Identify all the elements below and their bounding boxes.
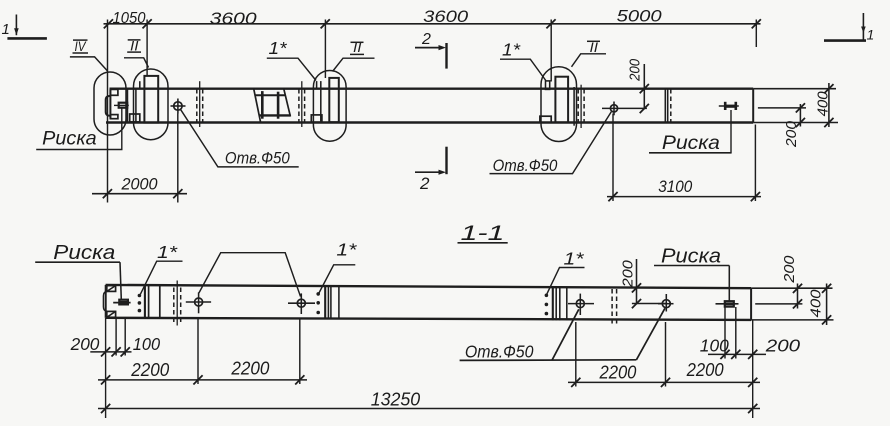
detail bubble IV (stadium around left end fitting) — [94, 72, 126, 135]
svg-text:13250: 13250 — [371, 388, 421, 409]
left end fitting: C-hook — [106, 96, 111, 116]
extension line at x=551.2 — [550, 20, 552, 82]
hole 2 (section) crosshair — [288, 302, 315, 304]
scribe mark (section right): box — [725, 301, 734, 306]
joint B (plan): axis line — [301, 81, 303, 127]
label Riska underline (plan left) — [36, 149, 122, 151]
joint A (plan): dashed line right — [202, 89, 204, 122]
svg-text:3100: 3100 — [658, 177, 692, 196]
scribe mark (plan right): right bar — [734, 102, 737, 110]
label II (first) leader — [124, 58, 149, 68]
dim 200/100 (section left): line — [90, 351, 131, 353]
dim 2000 (plan): extension under hole 1 — [177, 114, 179, 203]
joint C (plan): dashed line right — [583, 89, 585, 122]
tick at 0 — [104, 19, 113, 28]
label II (third) leader — [572, 54, 607, 67]
rib 1 (section): weld dots — [138, 294, 142, 298]
beam (plan): right end — [752, 89, 754, 123]
svg-text:200: 200 — [627, 58, 644, 81]
svg-text:200: 200 — [619, 260, 636, 289]
svg-text:1*: 1* — [157, 242, 178, 262]
section marker 2 (top): arrow line — [415, 47, 441, 49]
svg-text:2200: 2200 — [230, 359, 269, 379]
joint A (section): axis line — [176, 281, 178, 326]
beam (section): right end — [750, 288, 752, 320]
svg-text:1050: 1050 — [113, 10, 146, 27]
brace plate (plan): bottom bar — [259, 114, 291, 116]
svg-text:Отв.Ф50: Отв.Ф50 — [225, 149, 290, 168]
extension of beam top edge (plan right) — [753, 88, 836, 90]
svg-text:1: 1 — [2, 21, 10, 38]
section marker 2 (bottom): cut line — [445, 147, 447, 175]
rib 2 (section): plate lines — [324, 285, 326, 318]
dim 200 (section right): line — [797, 284, 799, 309]
svg-text:2: 2 — [419, 174, 430, 193]
svg-text:Риска: Риска — [661, 246, 721, 268]
joint C (plan): dashed line left — [577, 89, 579, 122]
svg-text:1-1: 1-1 — [461, 222, 505, 245]
joint D (plan): line 1 — [664, 89, 666, 122]
svg-text:200: 200 — [783, 120, 800, 148]
rib 3 (section): weld dots — [545, 294, 549, 298]
joint B (plan): dashed line right — [304, 89, 306, 122]
rib 2: end plate line — [320, 81, 322, 122]
dim 3100 (plan): extension under beam end — [754, 125, 756, 202]
extension line at x=147.1 — [146, 20, 148, 77]
dimension line (top chain) — [104, 23, 761, 25]
rib 3: small tab plate — [546, 81, 550, 90]
long extension under beam right end (section) — [752, 320, 754, 418]
scribe mark pointer (section right) — [728, 266, 730, 302]
extension line at x=107.5 (left end, runs to 2000 dim) — [107, 20, 109, 203]
svg-text:2000: 2000 — [121, 176, 159, 194]
tick at 4650 — [321, 19, 330, 28]
scribe mark pointer (section left) — [120, 262, 121, 300]
svg-text:2200: 2200 — [599, 363, 637, 383]
svg-text:Риска: Риска — [53, 242, 115, 264]
scribe mark (section left): box — [119, 300, 128, 305]
rib 1: small tab above flange — [139, 81, 141, 89]
rib 1: end plate line — [135, 89, 137, 122]
svg-text:Риска: Риска — [42, 128, 97, 150]
label Otv f50 underline (section) — [460, 359, 637, 362]
dim 3100 (plan): extension under hole 2 — [612, 114, 614, 202]
joint D (plan): line 2 — [667, 89, 669, 122]
hole 1 (plan) circle — [174, 102, 182, 110]
section marker 1 (left): cut line — [7, 37, 47, 40]
svg-text:1: 1 — [867, 27, 875, 43]
left end fitting: scribe mark box — [119, 103, 128, 108]
svg-text:200: 200 — [765, 336, 801, 356]
rib 1 (in bubble II): vertical plate — [144, 76, 158, 123]
svg-text:3600: 3600 — [423, 8, 469, 26]
dim 200 (plan, hole offset): line — [643, 64, 645, 109]
svg-text:100: 100 — [700, 336, 729, 356]
leader to hole 3 (section) — [552, 309, 579, 360]
joint A (plan): axis line — [199, 81, 201, 127]
dim 2200 pair (section left): line — [98, 379, 307, 381]
hole 1 (section) crosshair — [186, 301, 211, 303]
hole 2 crosshair vertical — [613, 102, 615, 116]
joint B (section): dashed line left — [611, 289, 613, 325]
svg-text:3600: 3600 — [210, 10, 258, 28]
beam (plan): top edge — [110, 87, 754, 89]
left end fitting (section): top tab with weld diagonal — [107, 286, 116, 292]
hole 2 leader to label — [490, 112, 612, 174]
svg-text:Отв.Ф50: Отв.Ф50 — [465, 342, 534, 362]
scribe mark (section right): line — [716, 303, 739, 305]
extension of beam top edge (section right) — [751, 287, 832, 289]
dim 200 (section mid): extension to hole 4 — [632, 303, 666, 305]
rib 2: bottom-left lug — [311, 115, 322, 122]
label Riska underline (section left) — [35, 261, 120, 263]
brace plate (plan): left post — [261, 91, 264, 119]
label II (second) leader — [333, 58, 375, 71]
scribe mark pointer (plan right) — [730, 110, 732, 153]
left end fitting: end plate edge — [126, 89, 128, 122]
section marker 2 (bottom): arrow line — [415, 171, 441, 173]
rib 2 (section): weld dots — [316, 292, 320, 296]
left end fitting: top tab plate — [110, 89, 118, 95]
hole 1 leader to label — [181, 110, 299, 167]
extension line at x=756.3 — [755, 20, 757, 48]
tick at 1050 — [143, 19, 152, 28]
svg-text:1*: 1* — [502, 40, 521, 60]
brace plate (plan): right slant edge — [284, 89, 291, 116]
label Riska underline (section right) — [654, 265, 729, 267]
joint A (plan): dashed line left — [196, 89, 198, 122]
dim 2000 (plan): line — [92, 193, 187, 195]
dim 100/200 (section right): extension lines — [724, 307, 726, 359]
scribe mark (section left): line — [113, 302, 130, 304]
svg-text:2: 2 — [421, 31, 431, 48]
hole 4 (section) crosshair — [658, 303, 674, 305]
label 1* (section, second) leader — [319, 265, 356, 294]
svg-text:1*: 1* — [269, 38, 288, 58]
beam (section): bottom edge — [106, 318, 752, 320]
rib 2: small tab — [316, 81, 318, 88]
section marker 1 (right): cut line — [824, 39, 866, 42]
rib 3: vertical plate — [555, 77, 568, 123]
dim 400 (section): line — [826, 284, 828, 326]
hole 1 (section) circle — [195, 298, 203, 306]
section marker 1 (right): cut arrow — [862, 13, 864, 41]
hole 2 (section) circle — [297, 299, 305, 307]
joint D (plan): dashed line — [670, 89, 672, 122]
extension line at x=325.4 — [324, 20, 326, 79]
joint B (plan): dashed line left — [298, 89, 300, 122]
label 1* (section, third) leader — [547, 268, 585, 295]
scribe mark pointer (plan left) — [121, 108, 123, 150]
dim 200 (plan right): line — [799, 104, 801, 127]
rib 1: bottom-left lug — [130, 114, 140, 122]
left end fitting: scribe mark line — [114, 104, 129, 106]
joint C (plan): axis line — [580, 85, 582, 128]
rib 2: vertical plate — [329, 78, 339, 122]
leader to hole 4 (section) — [636, 308, 665, 360]
svg-text:5000: 5000 — [617, 8, 663, 26]
long extension under beam left end (section) — [105, 318, 107, 418]
brace plate (plan): left slant edge — [254, 89, 261, 122]
svg-text:200: 200 — [70, 334, 100, 354]
hole 1 crosshair — [171, 105, 186, 107]
tent leader over holes 1-2 (section) — [199, 253, 301, 297]
joint A (section): dashed line right — [180, 288, 182, 324]
tick at 8250 — [546, 19, 555, 28]
scribe mark (plan right): line — [719, 105, 739, 107]
hole 2 (plan) circle — [610, 105, 617, 112]
rib 3 (section): plate lines — [552, 288, 554, 321]
scribe mark (plan right): left bar — [724, 102, 727, 110]
svg-text:2200: 2200 — [686, 360, 724, 380]
dim 3100 (plan): line — [607, 196, 761, 198]
section marker 1 (left): cut arrow — [15, 15, 17, 36]
dim 13250: line — [98, 408, 760, 410]
svg-text:Риска: Риска — [662, 132, 720, 154]
detail bubble (stadium around rib 3) — [541, 67, 577, 142]
svg-text:100: 100 — [133, 334, 161, 354]
svg-text:II: II — [353, 39, 362, 55]
dim 200/100 (section left): extension lines — [115, 318, 117, 355]
label 1* (section, first) leader — [140, 261, 182, 294]
dim 2200 pair (section right): extensions — [575, 322, 577, 387]
beam (plan): bottom edge — [106, 121, 753, 123]
detail bubble (stadium around rib 2) — [313, 71, 346, 142]
hole 3 (section) circle — [576, 300, 584, 308]
dim 2200 pair (section right): line — [568, 381, 760, 383]
rib 1 (section): plate lines — [144, 285, 146, 318]
section title underline — [458, 242, 508, 244]
hole 3 (section) crosshair — [568, 303, 594, 305]
left end fitting (section): hook bulge — [103, 291, 107, 311]
svg-text:Отв.Ф50: Отв.Ф50 — [493, 156, 558, 175]
scribe mark (plan right): middle band — [725, 105, 736, 108]
joint C (plan): weld edge line — [573, 87, 575, 126]
beam (section): left end — [105, 285, 107, 318]
brace plate (plan): top bar — [255, 94, 285, 96]
extension at hole level (plan right) — [758, 107, 806, 109]
left end fitting: channel web — [109, 89, 111, 118]
label Riska underline (plan right) — [649, 152, 732, 154]
label 1* (first) leader — [267, 58, 316, 80]
dim 2200 pair (section left): extensions — [197, 319, 199, 385]
left end fitting (section): bottom tab with weld diagonal — [107, 311, 116, 317]
hole 4 (section) circle — [662, 300, 670, 308]
svg-text:1*: 1* — [336, 240, 357, 260]
tick at 13250 — [752, 19, 761, 28]
hole 2 crosshair horizontal / extension to 200 dim — [602, 107, 647, 109]
svg-text:2200: 2200 — [130, 360, 169, 380]
extension of beam bottom edge (section right) — [751, 319, 833, 321]
extension of beam bottom edge (plan right) — [753, 122, 838, 124]
svg-text:400: 400 — [807, 289, 824, 318]
label IV leader — [70, 57, 107, 71]
svg-text:1*: 1* — [564, 249, 585, 269]
dim 200 (section mid): line — [636, 259, 638, 304]
section marker 2 (top): cut line — [445, 43, 447, 69]
label 1* (second) leader — [500, 59, 546, 80]
joint A (section): dashed line left — [173, 288, 175, 324]
rib 3: bottom-left lug — [540, 116, 551, 122]
left end fitting: bottom tab plate — [110, 115, 118, 119]
svg-text:200: 200 — [781, 255, 798, 284]
svg-text:400: 400 — [814, 91, 831, 117]
dim 200 (section right): extension at hole level — [755, 303, 802, 305]
detail bubble II first (stadium around rib 1) — [134, 69, 169, 140]
dim 100/200 (section right): line — [708, 353, 766, 355]
dim 400 (plan): line — [828, 83, 830, 127]
joint B (section): dashed line right — [616, 289, 618, 325]
beam (section): top edge — [106, 285, 752, 288]
brace plate (plan): right post — [277, 92, 280, 119]
